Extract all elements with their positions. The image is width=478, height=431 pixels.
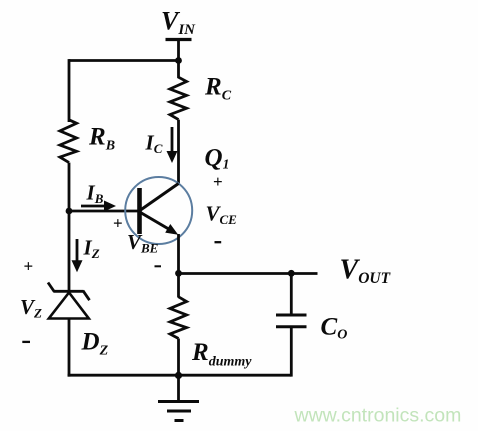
label IC (145, 131, 163, 157)
watermark (294, 405, 462, 427)
svg-text:+: + (24, 257, 34, 276)
svg-text:+: + (213, 172, 223, 191)
label IZ (83, 236, 100, 262)
wire capacitor bottom lead (290, 327, 293, 377)
label IB (86, 181, 104, 207)
junction capacitor node (288, 270, 295, 277)
capacitor CO (276, 315, 307, 327)
junction VOUT node (175, 270, 182, 277)
arrow IZ current (72, 239, 83, 272)
arrow IC current (167, 127, 178, 163)
label VZ (20, 295, 42, 321)
label VCE minus (215, 241, 222, 243)
wire Rdummy to bottom (177, 339, 180, 376)
label VBE (127, 230, 159, 256)
junction base node (66, 208, 73, 215)
wire VOUT node to Rdummy (177, 274, 180, 298)
arrow IB current (81, 201, 116, 212)
resistor RC (170, 61, 187, 120)
diode DZ zener (48, 283, 90, 319)
wire bottom horizontal (68, 374, 292, 377)
svg-text:www.cntronics.com: www.cntronics.com (294, 405, 462, 427)
label DZ (81, 329, 109, 359)
label VZ plus (24, 257, 34, 276)
node VIN label (161, 7, 196, 39)
label CO (321, 314, 348, 343)
label VCE plus (213, 172, 223, 191)
wire RB to base node (68, 163, 71, 211)
wire RC to collector (177, 120, 180, 184)
label VCE (206, 202, 238, 228)
label Rdummy (191, 339, 252, 370)
junction ground node (175, 372, 182, 379)
wire capacitor top lead (290, 274, 293, 316)
label RC (204, 74, 232, 104)
wire left rail upper (68, 59, 71, 122)
label VBE minus (155, 265, 162, 267)
resistor RB (60, 120, 77, 163)
ground (158, 375, 199, 420)
wire zener top lead (68, 211, 71, 291)
label VOUT (340, 255, 391, 288)
label VZ minus (22, 341, 30, 343)
label Q1 (205, 145, 230, 172)
wire top horizontal (69, 59, 179, 62)
label VBE plus (113, 214, 123, 233)
wire base lead (69, 210, 140, 213)
wire VIN to top node (177, 40, 180, 61)
resistor Rdummy (170, 297, 187, 339)
node VIN terminal bar (166, 38, 192, 41)
wire emitter to VOUT node (177, 234, 180, 274)
transistor Q1 (125, 177, 192, 244)
svg-text:+: + (113, 214, 123, 233)
wire VOUT horizontal (179, 272, 318, 275)
label RB (88, 124, 115, 154)
junction top node (175, 57, 182, 64)
wire zener bottom lead (68, 319, 71, 377)
